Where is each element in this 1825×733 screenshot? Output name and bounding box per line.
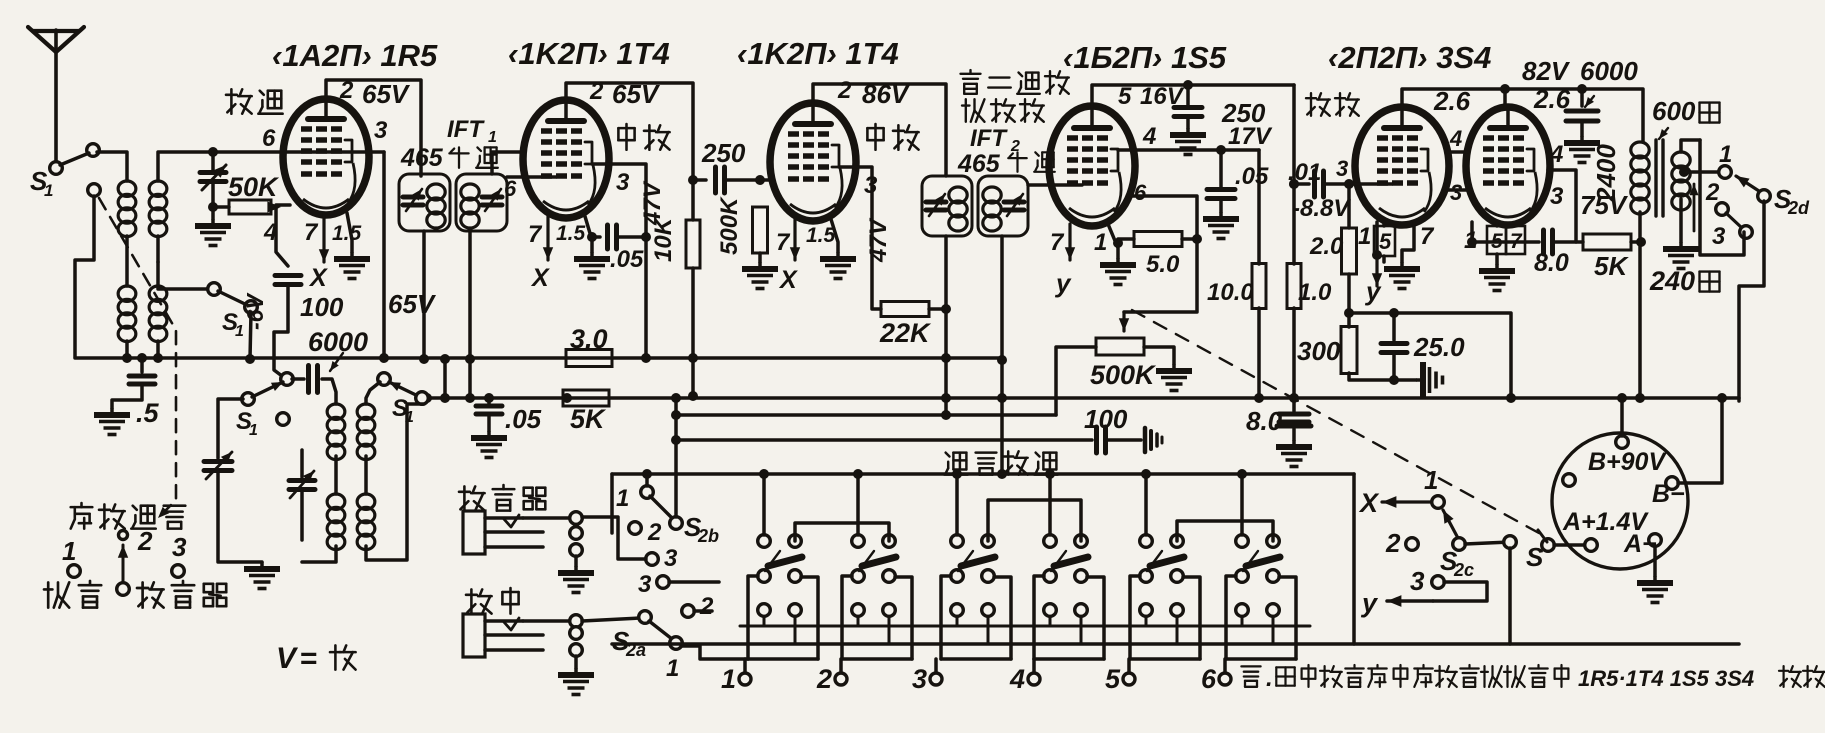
svg-text:50K: 50K	[228, 172, 280, 202]
svg-text:3: 3	[912, 664, 927, 694]
svg-text:.5: .5	[136, 398, 160, 428]
svg-text:2.6: 2.6	[1433, 86, 1471, 116]
svg-text:X: X	[308, 264, 328, 292]
svg-text:.05: .05	[610, 246, 644, 273]
svg-text:B+90V: B+90V	[1588, 448, 1667, 476]
svg-text:‹1A2Π› 1R5: ‹1A2Π› 1R5	[272, 38, 438, 73]
svg-text:7: 7	[1050, 229, 1065, 256]
svg-text:2: 2	[1385, 528, 1401, 558]
svg-text:2: 2	[647, 519, 662, 546]
svg-text:2b: 2b	[697, 526, 719, 546]
svg-text:6: 6	[1201, 664, 1217, 694]
svg-text:A−: A−	[1623, 530, 1657, 558]
svg-text:65V: 65V	[388, 289, 437, 319]
svg-text:300: 300	[1297, 336, 1341, 366]
svg-text:1.5: 1.5	[806, 224, 836, 247]
svg-text:1: 1	[666, 655, 679, 682]
svg-text:2: 2	[137, 526, 153, 556]
svg-text:6: 6	[1134, 180, 1147, 205]
svg-text:5: 5	[1105, 664, 1121, 694]
svg-text:2.0: 2.0	[1309, 233, 1344, 260]
svg-text:3: 3	[864, 172, 878, 199]
svg-text:465: 465	[400, 144, 444, 172]
svg-text:2: 2	[1705, 179, 1720, 206]
svg-text:2d: 2d	[1787, 198, 1810, 218]
svg-text:3: 3	[374, 117, 388, 144]
svg-text:4: 4	[1142, 123, 1156, 150]
svg-text:500K: 500K	[1090, 360, 1157, 390]
svg-text:3: 3	[1712, 223, 1726, 250]
svg-text:5.0: 5.0	[1146, 251, 1180, 278]
svg-text:65V: 65V	[362, 79, 411, 109]
svg-text:100: 100	[1084, 404, 1128, 434]
svg-text:1: 1	[616, 485, 629, 512]
svg-text:1.5: 1.5	[332, 222, 362, 245]
svg-text:4: 4	[263, 219, 277, 246]
svg-text:600: 600	[1652, 96, 1696, 126]
svg-text:=: =	[300, 642, 318, 675]
svg-text:7: 7	[304, 219, 319, 246]
svg-text:240: 240	[1649, 266, 1695, 296]
svg-text:465: 465	[957, 150, 1001, 178]
svg-text:100: 100	[300, 292, 344, 322]
svg-text:10.0: 10.0	[1207, 279, 1254, 306]
svg-text:X: X	[530, 264, 550, 292]
svg-text:1: 1	[488, 129, 497, 146]
svg-text:S: S	[1526, 542, 1544, 572]
svg-text:1: 1	[1094, 229, 1107, 256]
svg-text:1R5·1T4 1S5 3S4: 1R5·1T4 1S5 3S4	[1578, 666, 1754, 691]
svg-text:7: 7	[528, 221, 543, 248]
svg-text:1: 1	[721, 664, 736, 694]
svg-text:4: 4	[1549, 141, 1563, 168]
svg-text:25.0: 25.0	[1413, 332, 1465, 362]
svg-text:IFT: IFT	[970, 125, 1008, 152]
svg-text:2: 2	[339, 77, 354, 104]
svg-text:X: X	[778, 266, 798, 294]
svg-text:2400: 2400	[1591, 144, 1621, 203]
svg-text:1.5: 1.5	[556, 222, 586, 245]
svg-text:86V: 86V	[862, 79, 911, 109]
svg-text:5: 5	[1118, 83, 1132, 110]
svg-text:-8.8V: -8.8V	[1292, 195, 1351, 222]
svg-text:7: 7	[1420, 223, 1435, 250]
svg-text:B−: B−	[1652, 480, 1685, 508]
svg-text:3: 3	[638, 571, 652, 598]
svg-text:2c: 2c	[1453, 560, 1474, 580]
svg-text:.05: .05	[505, 404, 542, 434]
svg-text:‹1K2Π› 1T4: ‹1K2Π› 1T4	[508, 36, 670, 71]
svg-text:5: 5	[1379, 229, 1392, 254]
svg-text:1: 1	[249, 422, 258, 439]
svg-text:3: 3	[664, 545, 678, 572]
svg-text:1: 1	[1358, 223, 1371, 250]
svg-text:1: 1	[1424, 465, 1438, 495]
svg-text:‹1Б2Π› 1S5: ‹1Б2Π› 1S5	[1063, 40, 1227, 75]
svg-text:6000: 6000	[308, 327, 368, 357]
svg-text:47V: 47V	[865, 217, 892, 263]
svg-text:‹1K2Π› 1T4: ‹1K2Π› 1T4	[737, 36, 899, 71]
svg-text:5K: 5K	[570, 404, 607, 434]
svg-text:1: 1	[1719, 141, 1732, 168]
svg-text:5K: 5K	[1594, 251, 1629, 281]
svg-text:65V: 65V	[612, 79, 661, 109]
svg-text:4: 4	[1449, 126, 1462, 151]
svg-text:8.0: 8.0	[1534, 249, 1569, 277]
svg-text:3: 3	[1450, 180, 1462, 205]
svg-text:2: 2	[699, 593, 714, 620]
svg-text:3: 3	[1410, 566, 1425, 596]
svg-text:y: y	[1364, 276, 1382, 306]
svg-text:3: 3	[172, 532, 187, 562]
svg-text:‹2Π2Π› 3S4: ‹2Π2Π› 3S4	[1328, 40, 1491, 75]
svg-text:3: 3	[1336, 156, 1348, 181]
svg-text:8.0: 8.0	[1246, 406, 1283, 436]
svg-text:.: .	[1266, 665, 1273, 692]
svg-text:6: 6	[262, 125, 276, 152]
svg-text:3: 3	[616, 169, 630, 196]
svg-text:6: 6	[504, 176, 517, 201]
svg-text:1: 1	[44, 181, 53, 200]
svg-text:22K: 22K	[879, 318, 932, 348]
svg-text:2: 2	[837, 77, 852, 104]
svg-text:X: X	[1358, 488, 1380, 518]
svg-text:82V: 82V	[1522, 56, 1571, 86]
svg-text:17V: 17V	[1228, 123, 1273, 150]
svg-text:y: y	[1054, 268, 1072, 298]
svg-text:6000: 6000	[1580, 56, 1638, 86]
svg-text:V: V	[276, 642, 299, 675]
svg-text:3.0: 3.0	[570, 324, 608, 354]
svg-text:4: 4	[1009, 664, 1025, 694]
svg-text:2: 2	[589, 78, 604, 105]
svg-text:-6V: -6V	[242, 293, 268, 330]
svg-text:y: y	[1360, 588, 1379, 618]
svg-text:1: 1	[62, 536, 76, 566]
svg-text:3: 3	[1550, 183, 1564, 210]
svg-text:2: 2	[816, 664, 832, 694]
svg-text:.05: .05	[1235, 163, 1269, 190]
svg-text:500K: 500K	[716, 196, 743, 255]
svg-text:10K: 10K	[650, 216, 677, 262]
svg-text:1.0: 1.0	[1298, 279, 1332, 306]
svg-text:IFT: IFT	[447, 116, 485, 143]
svg-text:250: 250	[701, 138, 746, 168]
svg-text:7: 7	[776, 229, 791, 256]
